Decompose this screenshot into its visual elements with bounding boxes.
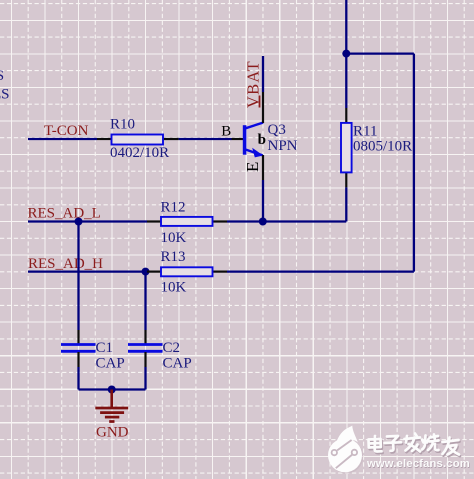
svg-text:B: B: [221, 123, 231, 139]
svg-text:ES: ES: [0, 87, 10, 103]
resistor R13 pin 2: [212, 271, 227, 273]
watermark logo white droplet: [328, 425, 362, 472]
svg-text:RES_AD_H: RES_AD_H: [28, 256, 103, 272]
wire RES_AD_H to C2 vertical: [144, 272, 146, 330]
junction GND: [108, 386, 116, 394]
svg-text:R11: R11: [353, 124, 377, 140]
svg-text:GND: GND: [96, 425, 129, 441]
wire bottom horizontal to GND: [79, 388, 146, 390]
ground bar 4: [109, 420, 114, 423]
wire VBAT to collector: [262, 56, 264, 92]
svg-text:Q3: Q3: [268, 122, 286, 138]
watermark Chinese text shadow: [370, 435, 461, 456]
transistor Q3 collector pin: [262, 92, 264, 123]
svg-text:NPN: NPN: [268, 138, 298, 154]
wire R13 right to right vertical: [227, 270, 414, 272]
transistor Q3 base bar: [243, 125, 247, 155]
resistor R10 pin 2: [163, 138, 179, 140]
ground bar 3: [105, 416, 119, 419]
junction C1 branch: [75, 218, 83, 226]
ground bar 2: [100, 411, 124, 414]
svg-text:10K: 10K: [161, 230, 187, 246]
svg-text:0805/10R: 0805/10R: [353, 139, 412, 155]
ground bar 1: [95, 407, 128, 410]
ground GND stem: [110, 390, 113, 408]
capacitor C1 pin 1: [77, 330, 79, 344]
transistor Q3 collector diagonal: [246, 123, 264, 129]
junction at top T: [342, 50, 350, 58]
wire top horizontal branch: [346, 52, 414, 54]
resistor R11 pin 2: [345, 172, 347, 187]
resistor R12 pin 2: [212, 220, 227, 222]
wire R12 right to R11 corner: [227, 220, 346, 222]
svg-text:10K: 10K: [161, 280, 187, 296]
wire T-CON net horizontal: [28, 138, 97, 140]
capacitor C2 plates: [128, 343, 163, 346]
transistor Q3 emitter pin: [262, 155, 264, 180]
svg-text:RES_AD_L: RES_AD_L: [28, 206, 101, 222]
svg-text:C2: C2: [163, 340, 181, 356]
resistor R13 pin 1: [147, 271, 162, 273]
power port VBAT bar: [259, 96, 261, 108]
svg-text:CAP: CAP: [163, 356, 192, 372]
svg-text:C1: C1: [96, 340, 114, 356]
transistor Q3 base pin: [232, 138, 244, 140]
junction Q3 emitter: [259, 218, 267, 226]
watermark logo shadow: [329, 440, 363, 474]
transistor Q3 emitter diagonal: [246, 150, 263, 156]
wire R10 to Q3 base: [179, 138, 232, 140]
resistor R13 body: [161, 267, 213, 276]
capacitor C1 pin 2: [77, 352, 79, 367]
svg-text:R12: R12: [161, 200, 186, 216]
svg-text:E: E: [243, 162, 262, 172]
watermark logo circuit trace: [332, 440, 358, 468]
svg-text:b: b: [258, 132, 266, 148]
junction C2 branch: [142, 268, 150, 276]
svg-text:R10: R10: [110, 117, 135, 133]
resistor R12 pin 1: [147, 220, 162, 222]
wire RES_AD_L net: [28, 220, 147, 222]
wire right vertical: [413, 54, 415, 272]
svg-text:www.elecfans.com: www.elecfans.com: [366, 458, 470, 470]
svg-text:0402/10R: 0402/10R: [110, 145, 169, 161]
wire top vertical into R11 net: [345, 0, 347, 108]
wire Q3 emitter down: [262, 180, 264, 222]
svg-text:R13: R13: [161, 249, 186, 265]
wire C1 bottom down: [77, 367, 79, 390]
wire RES_AD_L to C1 vertical: [77, 222, 79, 331]
resistor R10 body: [112, 135, 164, 145]
watermark Chinese text 电子发烧友: [369, 434, 460, 455]
svg-text:S: S: [0, 68, 4, 84]
transistor Q3 emitter arrowhead: [252, 148, 263, 158]
capacitor C2 pin 1: [144, 330, 146, 344]
svg-text:CAP: CAP: [96, 356, 125, 372]
svg-text:T-CON: T-CON: [44, 123, 89, 139]
wire RES_AD_H net: [28, 270, 147, 272]
capacitor C2 pin 2: [144, 352, 146, 367]
wire C2 bottom down: [144, 367, 146, 390]
wire R11 bottom to corner: [345, 187, 347, 221]
resistor R11 pin 1: [345, 108, 347, 123]
capacitor C1 plates: [61, 343, 96, 346]
resistor R12 body: [161, 217, 213, 226]
resistor R10 pin 1: [97, 138, 112, 140]
resistor R11 body: [341, 123, 352, 172]
